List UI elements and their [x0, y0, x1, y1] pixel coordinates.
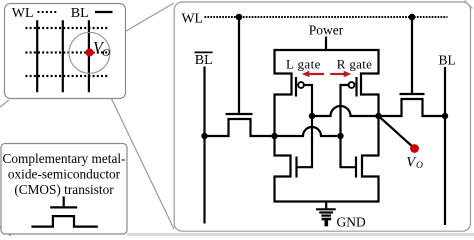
junction upper wire / right rail: [375, 113, 381, 119]
svg-text:WL: WL: [182, 11, 203, 26]
PMOS P1 gate plate: [295, 77, 297, 97]
bottom edge strip of cropped figure: [127, 233, 474, 236]
PMOS P1 gate lead down to NMOS N1 gate: [298, 85, 312, 167]
bit line column 2: [62, 20, 64, 92]
NMOS N2 gate plate: [355, 157, 357, 178]
junction left gate net / upper wire: [309, 113, 315, 119]
callout line stub exiting left edge from array box corner: [0, 100, 9, 109]
svg-text:WL: WL: [12, 6, 34, 21]
ground T mark: [322, 218, 332, 221]
BL wire: [444, 67, 446, 225]
PMOS P1 bubble: [298, 82, 304, 88]
red arrow to R gate: [330, 73, 346, 75]
junction lower wire / right gate net: [337, 133, 343, 139]
wire WL to right access gate: [411, 17, 413, 93]
bit line column 1: [36, 20, 38, 92]
BLbar wire: [203, 67, 205, 224]
word line row 1 (dotted): [25, 27, 109, 29]
svg-text:BL: BL: [71, 6, 89, 21]
PMOS P2 bubble: [349, 82, 355, 88]
svg-text:oxide-semiconductor: oxide-semiconductor: [8, 167, 121, 182]
lower cross-coupling wire with hop: [275, 127, 341, 136]
wire WL to left access gate: [238, 17, 240, 113]
main SRAM cell box: [174, 2, 470, 231]
svg-text:O: O: [102, 47, 110, 59]
junction on WL right: [409, 14, 416, 21]
svg-text:L gate: L gate: [286, 56, 321, 71]
magnifier circle around selected cell: [69, 32, 110, 73]
svg-text:Power: Power: [309, 22, 344, 37]
node Vo pointer line: [379, 116, 414, 148]
ground stub: [325, 202, 327, 209]
svg-text:BL: BL: [195, 53, 213, 68]
svg-text:O: O: [416, 161, 423, 171]
junction BLbar / access M5: [201, 133, 207, 139]
svg-text:R gate: R gate: [337, 56, 372, 71]
PMOS P2 gate plate: [355, 77, 357, 97]
red arrow to L gate: [308, 73, 325, 75]
svg-text:Complementary metal-: Complementary metal-: [3, 151, 126, 166]
upper cross-coupling wire with hop: [312, 106, 379, 116]
NMOS N1 gate plate: [295, 157, 297, 178]
WL dotted sample line: [38, 11, 58, 13]
svg-text:BL: BL: [439, 53, 456, 68]
inverter pair rail loop with PMOS and NMOS channel jogs: [275, 50, 379, 202]
Power stub wire: [325, 37, 327, 51]
ground bar 3: [321, 215, 331, 217]
word line row 2 (dotted): [25, 51, 109, 53]
word line row 3 (dotted): [25, 75, 109, 77]
corner fold mark top-right: [465, 1, 473, 9]
junction on WL left: [236, 14, 243, 21]
BL solid sample line: [95, 11, 113, 13]
svg-text:GND: GND: [337, 214, 366, 229]
legend transistor gate lead: [63, 196, 65, 206]
callout line from magnifier circle to main box top-left corner: [107, 3, 174, 42]
svg-text:(CMOS) transistor: (CMOS) transistor: [14, 182, 114, 197]
legend transistor gate bar: [50, 206, 77, 208]
junction access M6 / BL: [442, 113, 448, 119]
ground bar 2: [319, 211, 333, 213]
CMOS legend box (bottom-left): [1, 144, 127, 235]
access transistor M5 channel bump: [205, 119, 275, 136]
bit line column 3: [88, 20, 90, 92]
ground bar 1: [316, 208, 336, 210]
access transistor M5 gate bar: [226, 113, 253, 115]
memory array box (top-left): [5, 4, 126, 99]
legend transistor channel bump: [31, 216, 97, 227]
node Vo red dot: [410, 144, 419, 153]
junction access M5 / left rail: [271, 133, 277, 139]
access transistor M6 channel bump: [379, 99, 446, 116]
PMOS P2 gate lead down to NMOS N2 gate: [341, 85, 355, 167]
callout line stub at bottom-left image corner: [0, 225, 11, 236]
callout line from magnifier circle to main box bottom-left corner: [98, 71, 174, 229]
access transistor M6 gate bar: [400, 93, 425, 95]
node Vo red dot in array: [86, 49, 94, 57]
WL dotted wire: [205, 16, 448, 18]
